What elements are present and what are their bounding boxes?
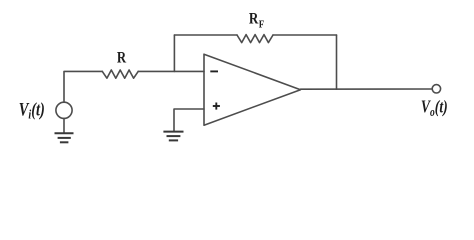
wire: non-inverting input with corner down [174, 109, 204, 131]
output terminal circle [432, 85, 440, 93]
op-amp non-inverting input marker (+) [213, 105, 220, 107]
wire: feedback right vertical down to output [336, 35, 338, 89]
wire: output [301, 88, 433, 90]
op-amp U1 triangle [204, 54, 301, 125]
wire: top feedback right segment [273, 34, 337, 36]
svg-text:RF: RF [249, 10, 264, 31]
resistor R [102, 70, 138, 78]
wire: R to inverting input of op-amp [138, 70, 204, 72]
ground under non-inverting input [163, 131, 183, 133]
wire: source bottom to ground [63, 118, 65, 132]
source Vi circle [56, 102, 72, 118]
svg-text:Vi(t): Vi(t) [19, 99, 45, 122]
wire: source up and left input segment to R [64, 71, 102, 102]
ground under source [55, 132, 74, 134]
op-amp inverting input marker (-) [210, 70, 218, 72]
wire: feedback tap vertical [173, 35, 175, 71]
svg-text:Vo(t): Vo(t) [421, 98, 448, 119]
svg-text:R: R [117, 49, 127, 67]
wire: top feedback left segment [174, 34, 237, 36]
resistor RF [237, 35, 273, 43]
